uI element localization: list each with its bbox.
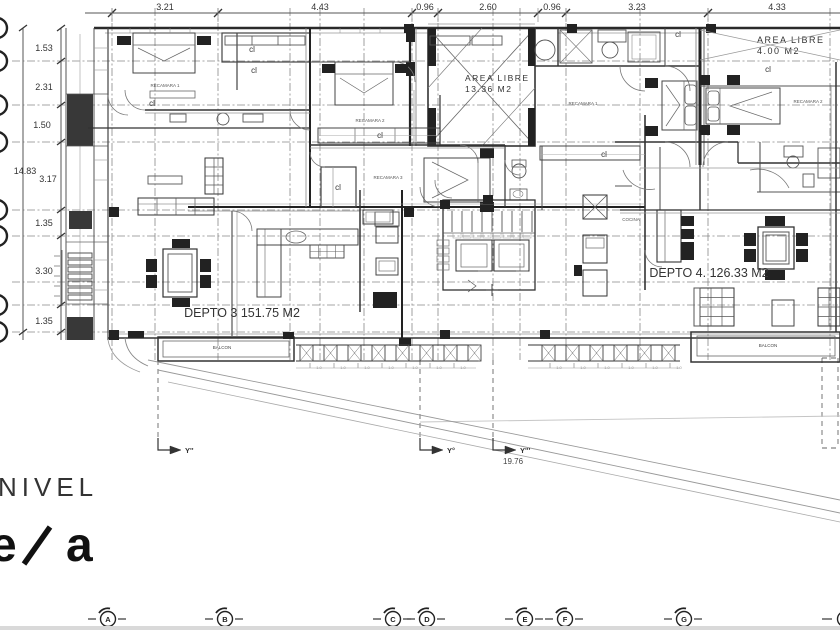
svg-text:Y''': Y'''	[520, 446, 531, 455]
svg-text:14.83: 14.83	[14, 166, 37, 176]
svg-text:RECAMARA 2: RECAMARA 2	[793, 99, 823, 104]
svg-text:1.0: 1.0	[388, 365, 394, 370]
svg-text:1.0: 1.0	[364, 365, 370, 370]
svg-text:BALCON: BALCON	[759, 343, 778, 348]
svg-text:cl: cl	[335, 183, 341, 192]
svg-text:4.33: 4.33	[768, 2, 786, 12]
svg-text:2.60: 2.60	[479, 2, 497, 12]
svg-text:1.35: 1.35	[35, 218, 53, 228]
svg-text:RECAMARA 1: RECAMARA 1	[568, 101, 598, 106]
svg-text:E: E	[522, 615, 527, 624]
svg-text:19.76: 19.76	[503, 457, 524, 466]
svg-text:Y°: Y°	[447, 446, 455, 455]
svg-text:cl: cl	[765, 65, 771, 74]
svg-text:3.23: 3.23	[628, 2, 646, 12]
svg-text:1.0: 1.0	[412, 365, 418, 370]
svg-text:1.0: 1.0	[556, 365, 562, 370]
svg-text:4.43: 4.43	[311, 2, 329, 12]
svg-text:cl: cl	[251, 66, 257, 75]
svg-text:DEPTO 3 151.75 M2: DEPTO 3 151.75 M2	[184, 306, 300, 320]
svg-text:NIVEL: NIVEL	[0, 472, 98, 502]
svg-text:0.96: 0.96	[543, 2, 561, 12]
svg-text:Y'': Y''	[185, 446, 194, 455]
svg-text:3.17: 3.17	[39, 174, 57, 184]
svg-text:AREA LIBRE: AREA LIBRE	[757, 35, 825, 45]
svg-text:1.0: 1.0	[676, 365, 682, 370]
svg-text:1.0: 1.0	[652, 365, 658, 370]
svg-text:RECAMARA 3: RECAMARA 3	[373, 175, 403, 180]
svg-text:D: D	[424, 615, 430, 624]
svg-text:a: a	[66, 519, 93, 572]
svg-text:A: A	[105, 615, 111, 624]
svg-text:DEPTO 4. 126.33 M2: DEPTO 4. 126.33 M2	[649, 266, 768, 280]
svg-text:e: e	[0, 519, 17, 572]
svg-text:B: B	[222, 615, 228, 624]
svg-text:cl: cl	[377, 131, 383, 140]
svg-text:13.36 M2: 13.36 M2	[465, 84, 512, 94]
svg-text:1.0: 1.0	[628, 365, 634, 370]
svg-text:cl: cl	[149, 99, 155, 108]
svg-text:3.30: 3.30	[35, 266, 53, 276]
svg-text:RECAMARA 2: RECAMARA 2	[355, 118, 385, 123]
svg-text:1.35: 1.35	[35, 316, 53, 326]
svg-text:COCINA: COCINA	[622, 217, 640, 222]
svg-text:G: G	[681, 615, 687, 624]
svg-text:1.0: 1.0	[436, 365, 442, 370]
svg-text:1.53: 1.53	[35, 43, 53, 53]
svg-text:1.0: 1.0	[604, 365, 610, 370]
svg-text:C: C	[390, 615, 396, 624]
svg-text:2.31: 2.31	[35, 82, 53, 92]
svg-text:cl: cl	[675, 30, 681, 39]
svg-text:1.0: 1.0	[316, 365, 322, 370]
svg-text:cl: cl	[601, 150, 607, 159]
svg-text:1.0: 1.0	[340, 365, 346, 370]
svg-text:F: F	[563, 615, 568, 624]
svg-text:cl: cl	[249, 45, 255, 54]
svg-text:1.50: 1.50	[33, 120, 51, 130]
svg-text:RECAMARA 1: RECAMARA 1	[150, 83, 180, 88]
svg-text:1.0: 1.0	[460, 365, 466, 370]
svg-text:BALCON: BALCON	[213, 345, 232, 350]
svg-text:AREA LIBRE: AREA LIBRE	[465, 73, 530, 83]
svg-text:0.96: 0.96	[416, 2, 434, 12]
svg-text:4.00 M2: 4.00 M2	[757, 46, 800, 56]
svg-text:3.21: 3.21	[156, 2, 174, 12]
svg-text:1.0: 1.0	[580, 365, 586, 370]
